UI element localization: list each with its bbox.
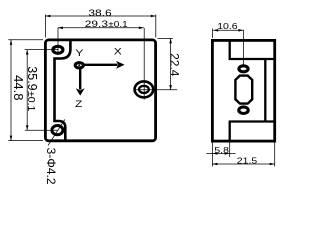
svg-text:38.6: 38.6: [88, 8, 111, 18]
centerline top hole vertical: [57, 28, 59, 53]
svg-text:Z: Z: [75, 99, 83, 109]
svg-text:3-Φ4.2: 3-Φ4.2: [44, 148, 58, 185]
svg-text:5.8: 5.8: [214, 145, 229, 155]
hole bottom-left: [52, 126, 63, 135]
mounting boss outline (tabs + left web): [55, 40, 71, 141]
plate outline: [45, 40, 155, 141]
hole top-left: [53, 46, 63, 53]
svg-text:10.6: 10.6: [217, 21, 237, 31]
internal vertical flange edge top: [229, 40, 231, 60]
X axis arrow: [85, 64, 118, 66]
internal horizontal bottom step: [229, 120, 275, 122]
dim 35.9 ±0.1: [25, 50, 39, 131]
svg-text:35.9: 35.9: [25, 66, 39, 90]
connector bottom jackscrew: [239, 107, 248, 114]
connector body: [235, 76, 252, 104]
outline: [212, 40, 274, 141]
svg-text:Y: Y: [75, 48, 83, 58]
centerline right hole vertical: [143, 28, 145, 100]
dim 44.8: [8, 40, 43, 141]
hole right counterbore outer ring: [135, 81, 154, 97]
dim 22.4: [158, 38, 182, 90]
dim 5.8: [207, 142, 236, 167]
svg-text:44.8: 44.8: [11, 75, 26, 100]
Z axis arrow: [79, 69, 81, 90]
dim 21.5: [212, 142, 274, 167]
centerline right hole horizontal: [135, 89, 177, 91]
connector centerline: [243, 30, 245, 65]
svg-text:±0.1: ±0.1: [108, 20, 127, 29]
svg-text:29.3: 29.3: [85, 19, 108, 29]
centerline bottom hole horizontal: [25, 129, 57, 131]
connector top jackscrew: [239, 66, 248, 72]
dim 29.3 ±0.1: [58, 19, 144, 29]
hole right inner ring: [139, 86, 149, 93]
internal vertical body edge: [264, 59, 266, 122]
internal vertical flange edge bottom: [229, 122, 231, 142]
coordinate system origin marker (axis out of plane): [75, 47, 125, 110]
svg-text:22.4: 22.4: [168, 53, 182, 77]
dim 38.6: [45, 8, 155, 38]
centerline top hole horizontal: [25, 49, 59, 51]
svg-text:±0.1: ±0.1: [25, 91, 37, 112]
internal horizontal top step: [229, 58, 275, 60]
leader 3-Φ4.2: [44, 120, 65, 185]
svg-text:21.5: 21.5: [237, 156, 257, 166]
svg-text:X: X: [114, 47, 122, 57]
dim 10.6: [212, 21, 243, 38]
